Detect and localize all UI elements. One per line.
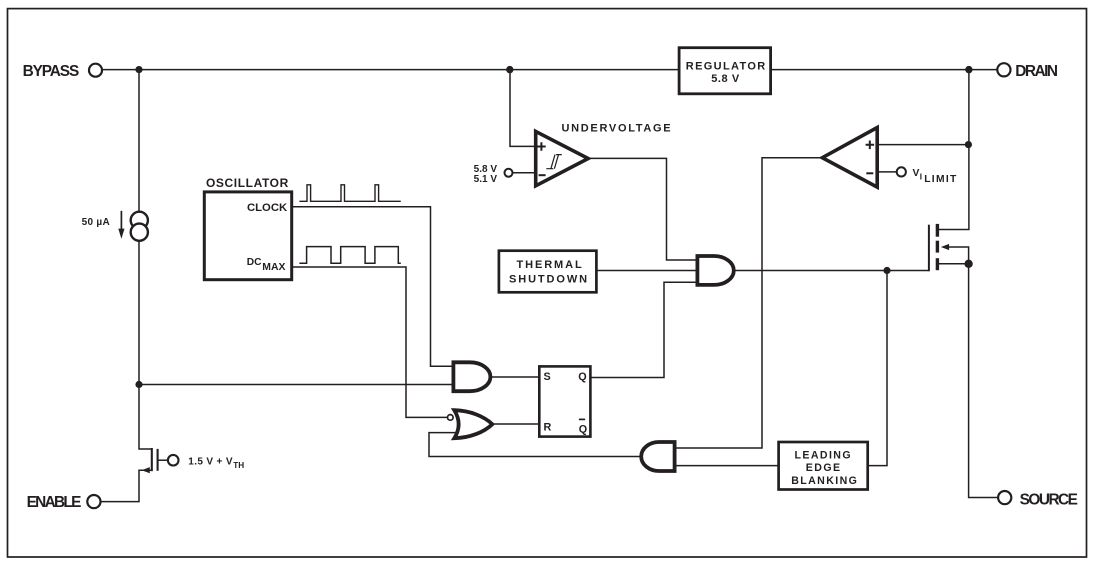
svg-text:1.5 V + V: 1.5 V + V: [188, 456, 233, 467]
svg-text:R: R: [544, 421, 552, 433]
svg-text:REGULATOR: REGULATOR: [686, 60, 767, 72]
svg-text:TH: TH: [233, 461, 244, 470]
svg-text:BYPASS: BYPASS: [23, 63, 79, 80]
svg-text:ENABLE: ENABLE: [27, 494, 82, 511]
svg-text:S: S: [544, 371, 551, 383]
svg-text:DRAIN: DRAIN: [1015, 63, 1058, 80]
svg-text:SOURCE: SOURCE: [1020, 491, 1078, 508]
svg-text:LEADING: LEADING: [795, 450, 852, 462]
svg-text:I: I: [920, 172, 922, 181]
svg-text:LIMIT: LIMIT: [924, 174, 957, 185]
svg-text:Q: Q: [579, 423, 587, 435]
svg-text:UNDERVOLTAGE: UNDERVOLTAGE: [562, 122, 673, 134]
svg-text:OSCILLATOR: OSCILLATOR: [206, 176, 289, 190]
svg-text:DC: DC: [247, 257, 262, 268]
svg-text:BLANKING: BLANKING: [791, 475, 858, 487]
svg-text:EDGE: EDGE: [806, 462, 842, 474]
svg-text:Q: Q: [578, 371, 586, 383]
svg-text:5.8 V: 5.8 V: [711, 73, 740, 85]
svg-text:MAX: MAX: [262, 262, 285, 273]
svg-text:50 µA: 50 µA: [82, 217, 110, 228]
svg-text:V: V: [913, 168, 920, 179]
svg-text:THERMAL: THERMAL: [517, 259, 584, 271]
svg-text:CLOCK: CLOCK: [247, 202, 288, 214]
svg-text:SHUTDOWN: SHUTDOWN: [509, 273, 589, 285]
svg-text:5.1 V: 5.1 V: [474, 174, 498, 185]
